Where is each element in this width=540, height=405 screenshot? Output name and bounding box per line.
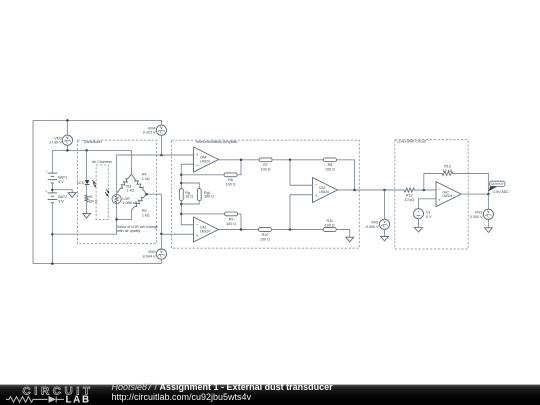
svg-text:0.300 V: 0.300 V xyxy=(470,215,483,219)
wire bridge left signal xyxy=(117,154,194,156)
wire feedback up xyxy=(424,174,441,191)
wire OA4 out xyxy=(219,159,260,161)
wire bridge right down xyxy=(160,194,162,249)
wire R11 to ground xyxy=(336,230,350,238)
svg-text:0 V: 0 V xyxy=(426,215,432,219)
battery BAT1 xyxy=(48,173,58,183)
svg-text:100 Ω: 100 Ω xyxy=(325,168,335,172)
wire bridge apex xyxy=(130,150,132,174)
wire left rail xyxy=(32,120,34,263)
svg-text:OUTPUT: OUTPUT xyxy=(491,182,504,186)
node VM2 tap xyxy=(383,189,386,192)
wire top rail xyxy=(33,120,161,125)
resistor Rg xyxy=(179,189,183,201)
resistor R7 xyxy=(259,158,272,162)
wire VM3 bottom xyxy=(66,145,68,150)
wire to OA3 non-inv xyxy=(290,195,313,230)
node bridge right xyxy=(145,193,148,196)
svg-text:9.323 V: 9.323 V xyxy=(143,131,156,135)
ground VM1 xyxy=(484,228,492,233)
node A xyxy=(289,159,292,162)
svg-text:8.944 V: 8.944 V xyxy=(143,255,156,259)
wire R8 right xyxy=(337,160,355,190)
wire V1 ground stem xyxy=(418,219,420,228)
instrumentation amplifier enclosure xyxy=(172,140,360,248)
svg-text:+: + xyxy=(438,197,441,202)
wire Rg1 bottom xyxy=(181,201,199,204)
svg-text:VM4: VM4 xyxy=(148,126,156,130)
svg-text:R13: R13 xyxy=(444,164,451,168)
svg-text:100 Ω: 100 Ω xyxy=(261,168,271,172)
photoresistor LDR xyxy=(112,195,137,205)
svg-text:R11: R11 xyxy=(326,219,333,223)
ground R11 xyxy=(346,237,354,242)
svg-text:330 Ω: 330 Ω xyxy=(89,199,98,203)
wire to OA1 + xyxy=(161,233,193,235)
svg-text:Air Chamber: Air Chamber xyxy=(92,160,113,164)
wire VM2 top xyxy=(384,190,386,219)
svg-text:+: + xyxy=(315,193,318,198)
node OA1 fb xyxy=(240,228,243,231)
svg-text:100 Ω: 100 Ω xyxy=(325,223,335,227)
svg-text:+: + xyxy=(196,152,199,157)
svg-text:V1: V1 xyxy=(426,210,431,214)
node Rg bottom xyxy=(180,203,183,206)
svg-text:+: + xyxy=(196,233,199,238)
wire BAT1-BAT2 xyxy=(51,183,53,193)
op-amp OA2 xyxy=(436,182,461,207)
node bridge return xyxy=(51,233,54,236)
resistor R11 xyxy=(323,228,336,232)
voltmeter VM4 xyxy=(143,125,167,135)
svg-text:1 kΩ: 1 kΩ xyxy=(142,177,150,181)
node supply/VM3 xyxy=(66,149,69,152)
svg-text:VM3: VM3 xyxy=(54,136,62,140)
svg-text:−: − xyxy=(315,183,318,188)
wire OA1 out xyxy=(219,229,259,231)
wire VM4 stub xyxy=(160,124,162,126)
svg-text:R7: R7 xyxy=(263,163,268,167)
svg-text:VM5: VM5 xyxy=(148,250,156,254)
wire VM5 bottom xyxy=(160,259,162,263)
voltmeter VM2 xyxy=(365,219,390,229)
resistor Rg1 xyxy=(197,189,201,201)
resistor R3 xyxy=(117,174,131,192)
svg-text:Level Shift Circuit: Level Shift Circuit xyxy=(397,140,427,144)
wire OA4 inv xyxy=(181,164,193,188)
wire LED top xyxy=(86,150,88,180)
voltmeter VM1 xyxy=(470,209,494,219)
wire LDR top / bridge left xyxy=(116,155,118,195)
node bottom rail xyxy=(51,262,54,265)
svg-text:LM324: LM324 xyxy=(319,190,329,194)
LED diode xyxy=(77,180,89,185)
resistor R8 xyxy=(324,158,337,162)
wire feedback down xyxy=(454,174,488,195)
svg-text:1 kΩ: 1 kΩ xyxy=(142,213,150,217)
svg-text:-0.300 V: -0.300 V xyxy=(365,225,379,229)
svg-text:100 Ω: 100 Ω xyxy=(260,237,270,241)
node inst-amp out xyxy=(353,189,356,192)
svg-text:100 Ω: 100 Ω xyxy=(226,183,236,187)
svg-text:1 kΩ: 1 kΩ xyxy=(127,189,135,193)
wire Rg bottom to OA1 inv xyxy=(181,201,193,225)
svg-text:+: + xyxy=(45,189,47,193)
resistor R13 xyxy=(441,172,454,176)
wire node A xyxy=(272,159,323,161)
svg-text:LED: LED xyxy=(77,181,85,185)
wire VM1 ground stem xyxy=(487,219,489,227)
wire R12 to OA2 xyxy=(416,189,437,191)
wire R1-ground xyxy=(86,203,88,213)
svg-text:9 V: 9 V xyxy=(58,180,64,184)
voltmeter VM3 xyxy=(49,135,72,145)
wire bottom rail xyxy=(33,263,161,265)
node battery mid xyxy=(51,188,54,191)
node VM5 tap xyxy=(160,233,163,236)
footer bar xyxy=(0,382,540,405)
node R6 tee xyxy=(180,174,183,177)
svg-text:−: − xyxy=(196,222,199,227)
svg-text:LAB: LAB xyxy=(66,395,91,405)
wire R6 right xyxy=(237,160,241,175)
resistor R5 xyxy=(132,194,147,210)
resistor R1 xyxy=(85,194,88,204)
wire OA3 output xyxy=(338,189,404,191)
svg-text:+: + xyxy=(45,169,47,173)
wire OA2 output xyxy=(461,193,488,195)
resistor R9 xyxy=(225,212,238,216)
svg-text:VM1: VM1 xyxy=(475,210,483,214)
svg-text:Hootsie87 / Assignment 1 - Ext: Hootsie87 / Assignment 1 - External dust… xyxy=(112,382,334,392)
ground battery mid xyxy=(68,193,76,198)
svg-text:R12: R12 xyxy=(406,194,413,198)
svg-text:10 kΩ: 10 kΩ xyxy=(404,198,414,202)
wire LED-R1 xyxy=(86,185,88,194)
wire VM2 ground stem xyxy=(384,229,386,236)
svg-text:−: − xyxy=(438,187,441,192)
op-amp OA1 xyxy=(194,217,219,242)
wire bridge bottom vertex xyxy=(117,210,132,220)
svg-text:LM324: LM324 xyxy=(200,230,210,234)
svg-text:Instrumentation Amplifier: Instrumentation Amplifier xyxy=(196,140,239,144)
wire bridge right vertex xyxy=(147,193,162,195)
node OA2 inv xyxy=(423,189,426,192)
wire R9 right xyxy=(238,214,241,230)
svg-text:R8: R8 xyxy=(328,163,333,167)
LDR light arrows xyxy=(105,189,110,196)
ground VM2 xyxy=(381,236,389,241)
svg-text:100 Ω: 100 Ω xyxy=(226,222,236,226)
air chamber enclosure xyxy=(96,165,108,219)
node bridge bottom xyxy=(115,218,118,221)
wire V1 to OA2 non-inv xyxy=(419,199,437,209)
svg-text:10 kΩ: 10 kΩ xyxy=(443,169,453,173)
node Rg top xyxy=(180,182,183,185)
ground V1 xyxy=(415,228,423,233)
svg-text:BAT1: BAT1 xyxy=(58,175,67,179)
svg-text:R9: R9 xyxy=(229,217,234,221)
svg-text:Transducer: Transducer xyxy=(83,140,103,144)
voltmeter VM5 xyxy=(143,249,167,259)
svg-text:R6: R6 xyxy=(228,178,233,182)
resistor R12 xyxy=(403,188,416,192)
resistor R6 xyxy=(224,173,237,177)
node top-rail/VM3 xyxy=(66,119,69,122)
wire LDR bottom return xyxy=(52,204,116,235)
svg-text:16 Ω: 16 Ω xyxy=(185,195,193,199)
wire VM1 top xyxy=(487,194,489,209)
svg-text:http://circuitlab.com/cu92jbu5: http://circuitlab.com/cu92jbu5wts4v xyxy=(112,392,252,402)
wire BAT1 top xyxy=(51,150,53,173)
wire Rg1 top xyxy=(181,183,199,189)
wire R9 left xyxy=(181,213,224,215)
svg-text:BAT2: BAT2 xyxy=(58,195,67,199)
wire node B xyxy=(272,229,324,231)
wire BAT2 bottom xyxy=(51,203,53,264)
transducer enclosure xyxy=(78,140,157,243)
resistor R4 xyxy=(131,174,146,194)
svg-text:with air quality: with air quality xyxy=(117,229,141,233)
voltage source V1 xyxy=(414,209,433,219)
svg-text:1.088 kΩ: 1.088 kΩ xyxy=(122,201,137,205)
resistor R10 xyxy=(259,228,272,232)
svg-text:VM2: VM2 xyxy=(371,220,379,224)
op-amp OA4 xyxy=(194,147,219,172)
svg-text:LM324: LM324 xyxy=(200,160,210,164)
node R9 tee xyxy=(180,213,183,216)
LED emission arrows xyxy=(92,180,96,188)
node OUTPUT xyxy=(487,193,490,196)
node OUTPUT flag xyxy=(488,181,509,194)
svg-text:0.5V ADC: 0.5V ADC xyxy=(493,190,509,194)
svg-text:9 V: 9 V xyxy=(58,200,64,204)
node OA4 fb xyxy=(240,159,243,162)
node B xyxy=(289,228,292,231)
node supply/LED xyxy=(85,149,88,152)
node VM4 tap xyxy=(160,154,163,157)
footer logo resistor-diode glyph xyxy=(6,396,64,402)
wire VM3 top xyxy=(66,120,68,135)
svg-text:−: − xyxy=(196,163,199,168)
ground R1 xyxy=(83,213,91,218)
wire to ground xyxy=(52,190,72,193)
svg-text:17.89 V: 17.89 V xyxy=(49,141,62,145)
wire to OA3 inv xyxy=(290,160,313,185)
wire R6 left xyxy=(181,174,224,176)
svg-text:R10: R10 xyxy=(262,233,269,237)
wire VM4 bottom xyxy=(160,135,162,155)
level shift enclosure xyxy=(395,140,468,249)
op-amp OA3 xyxy=(313,178,338,203)
wire supply rail xyxy=(52,149,131,151)
battery BAT2 xyxy=(48,193,58,203)
svg-text:LM324: LM324 xyxy=(443,194,453,198)
svg-text:390 Ω: 390 Ω xyxy=(204,195,214,199)
